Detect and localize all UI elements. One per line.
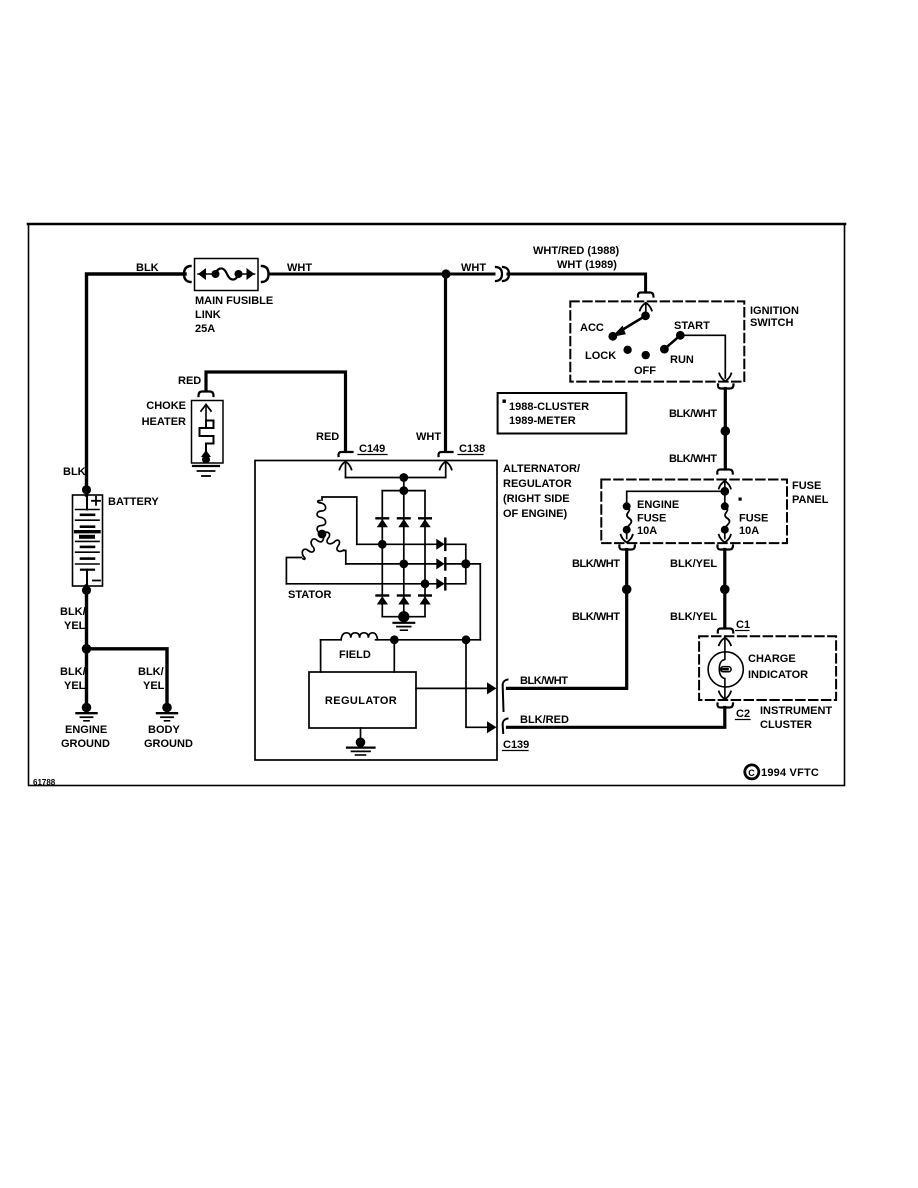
- wire engine fuse to regulator BLK/WHT: [508, 550, 627, 689]
- wire bridge left column: [381, 491, 383, 617]
- pin arrow cluster input: [719, 638, 731, 653]
- svg-text:(RIGHT SIDE: (RIGHT SIDE: [503, 493, 570, 505]
- wire ignition to fuse panel: [724, 389, 727, 469]
- svg-text:LOCK: LOCK: [585, 350, 616, 362]
- svg-text:ACC: ACC: [580, 322, 604, 334]
- svg-text:YEL: YEL: [64, 620, 86, 632]
- wire input bus: [346, 477, 446, 479]
- svg-text:OF ENGINE): OF ENGINE): [503, 508, 568, 520]
- label asterisk: [739, 498, 742, 501]
- svg-text:STATOR: STATOR: [288, 589, 331, 601]
- node bus junction: [399, 473, 408, 482]
- node ground branch: [82, 644, 92, 654]
- svg-text:HEATER: HEATER: [142, 416, 186, 428]
- svg-text:REGULATOR: REGULATOR: [325, 695, 397, 707]
- fuse panel box: [601, 480, 787, 544]
- pin arrow ignition input: [640, 303, 652, 316]
- wire RED choke heater to alternator C149: [206, 372, 346, 451]
- svg-text:BLK: BLK: [136, 262, 159, 274]
- inline connector double arc: [496, 267, 502, 281]
- node phase1 left column: [378, 540, 387, 549]
- diode D2: [398, 518, 410, 527]
- wire connector to ignition switch: [508, 274, 646, 290]
- pin arrow C149 input: [340, 462, 352, 478]
- arrow output BLK/WHT: [487, 682, 497, 694]
- note box 1988/1989: [498, 393, 627, 434]
- wire field right to regulator: [393, 640, 395, 672]
- wire field left to regulator: [320, 640, 322, 672]
- ignition switch box: [570, 301, 744, 381]
- svg-text:RED: RED: [316, 431, 339, 443]
- node fuse branch: [720, 487, 729, 496]
- svg-text:LINK: LINK: [195, 309, 221, 321]
- diode D6: [419, 596, 431, 605]
- svg-text:FUSE: FUSE: [792, 480, 821, 492]
- wire bus to bridge: [403, 478, 405, 491]
- wire trio output tie: [445, 544, 466, 584]
- svg-text:ENGINE: ENGINE: [637, 499, 679, 511]
- svg-text:1994 VFTC: 1994 VFTC: [761, 767, 819, 779]
- field coil: [321, 633, 481, 640]
- connector C138: [438, 452, 452, 456]
- svg-text:PANEL: PANEL: [792, 494, 829, 506]
- connector C139 pin1: [503, 680, 508, 712]
- wire stator phase1 lead: [322, 497, 357, 544]
- wire battery negative to ground junction: [85, 586, 88, 707]
- node field output: [462, 635, 471, 644]
- svg-text:START: START: [674, 320, 710, 332]
- svg-text:C: C: [748, 768, 755, 778]
- connector above choke heater: [199, 392, 214, 397]
- svg-text:CHARGE: CHARGE: [748, 653, 796, 665]
- node LOCK: [623, 346, 631, 354]
- node splice: [721, 426, 731, 436]
- arrow cluster output down: [719, 687, 731, 699]
- wire bridge bottom rail: [382, 616, 425, 618]
- svg-text:CHOKE: CHOKE: [146, 400, 186, 412]
- node phase2 middle column: [399, 560, 408, 569]
- diode D1: [377, 518, 389, 527]
- node splice BLK/YEL: [720, 585, 730, 595]
- diode trio 3: [436, 578, 445, 589]
- ground bridge: [394, 611, 415, 630]
- node bridge top: [399, 486, 408, 495]
- svg-text:MAIN FUSIBLE: MAIN FUSIBLE: [195, 295, 273, 307]
- svg-text:FUSE: FUSE: [739, 513, 768, 525]
- svg-text:WHT (1989): WHT (1989): [557, 259, 617, 271]
- svg-text:C1: C1: [736, 619, 750, 631]
- connector C1: [718, 629, 734, 633]
- node battery top: [82, 485, 91, 494]
- wire branch to engine fuse: [627, 491, 725, 506]
- connector left of fusible link: [184, 266, 191, 282]
- wire battery positive to fusible link: [87, 274, 186, 495]
- svg-text:YEL: YEL: [143, 680, 165, 692]
- regulator U1: [309, 672, 416, 728]
- svg-text:BLK/WHT: BLK/WHT: [572, 558, 620, 570]
- wire phase3: [286, 583, 436, 585]
- svg-text:RED: RED: [178, 375, 201, 387]
- diode D5: [398, 596, 410, 605]
- svg-text:BLK: BLK: [63, 466, 86, 478]
- svg-text:BLK/: BLK/: [138, 666, 164, 678]
- wire C2 to regulator BLK/RED: [508, 708, 725, 728]
- ground bars choke heater: [193, 466, 219, 476]
- connector right of fusible link: [262, 266, 269, 282]
- wire START to switch output: [680, 335, 725, 378]
- stator coil 1: [317, 501, 326, 535]
- arrow output BLK/RED: [487, 721, 497, 733]
- body ground: [157, 703, 177, 721]
- svg-text:BLK/YEL: BLK/YEL: [670, 558, 717, 570]
- wire field output BLK/RED: [466, 640, 489, 728]
- wire bridge top rail: [382, 490, 425, 492]
- wire WHT to alternator C138: [444, 274, 447, 451]
- svg-text:INSTRUMENT: INSTRUMENT: [760, 705, 832, 717]
- copyright 1994 VFTC: [745, 765, 819, 779]
- connector below engine fuse: [619, 546, 635, 550]
- switch arm to ACC: [622, 316, 646, 331]
- node stator center: [318, 530, 327, 539]
- wire branch to body ground: [87, 649, 168, 707]
- svg-text:BLK/YEL: BLK/YEL: [670, 611, 717, 623]
- svg-text:OFF: OFF: [634, 365, 656, 377]
- wire trio output to field line: [445, 564, 480, 640]
- svg-text:SWITCH: SWITCH: [750, 317, 793, 329]
- pin arrow fuse panel input: [719, 481, 731, 491]
- stator coil 3: [320, 530, 347, 553]
- engine fuse 10A: [621, 502, 633, 542]
- svg-text:ALTERNATOR/: ALTERNATOR/: [503, 463, 580, 475]
- wire bridge right column: [424, 491, 426, 617]
- svg-text:FIELD: FIELD: [339, 649, 371, 661]
- ground regulator: [347, 728, 375, 755]
- connector C2: [717, 704, 733, 708]
- node ACC: [608, 332, 617, 341]
- svg-text:1989-METER: 1989-METER: [509, 415, 576, 427]
- choke heater: [192, 401, 224, 464]
- svg-text:C138: C138: [459, 443, 485, 455]
- wire right fuse to C1 BLK/YEL: [723, 550, 726, 628]
- alternator/regulator box: [255, 461, 497, 761]
- svg-text:C2: C2: [736, 708, 750, 720]
- svg-text:GROUND: GROUND: [144, 738, 193, 750]
- svg-text:WHT/RED (1988): WHT/RED (1988): [533, 245, 620, 257]
- node START: [676, 331, 685, 340]
- connector C139 pin2: [503, 719, 508, 734]
- node splice BLK/WHT: [622, 585, 632, 595]
- node field right: [390, 635, 399, 644]
- svg-text:BLK/: BLK/: [60, 666, 86, 678]
- svg-text:10A: 10A: [739, 525, 759, 537]
- svg-text:BLK/WHT: BLK/WHT: [572, 611, 620, 623]
- svg-text:10A: 10A: [637, 525, 657, 537]
- svg-text:25A: 25A: [195, 323, 215, 335]
- svg-text:BLK/RED: BLK/RED: [520, 714, 569, 726]
- connector below ignition switch: [718, 385, 734, 389]
- connector C149: [338, 452, 352, 456]
- node switch common: [641, 311, 650, 320]
- svg-text:REGULATOR: REGULATOR: [503, 478, 572, 490]
- arrow switch output down: [719, 374, 731, 382]
- svg-text:BATTERY: BATTERY: [108, 496, 159, 508]
- connector above fuse panel: [717, 470, 733, 474]
- connector below right fuse: [717, 546, 733, 550]
- svg-text:BLK/WHT: BLK/WHT: [520, 675, 568, 687]
- node OFF: [642, 351, 650, 359]
- svg-text:RUN: RUN: [670, 354, 694, 366]
- diode trio 1: [436, 539, 445, 550]
- stator coil 2: [299, 532, 326, 561]
- wire phase2: [346, 563, 437, 565]
- connector above ignition switch: [638, 293, 654, 297]
- wire bridge middle column: [403, 491, 405, 617]
- svg-text:WHT: WHT: [416, 431, 441, 443]
- diode D3: [419, 518, 431, 527]
- node RUN: [660, 345, 669, 354]
- svg-text:FUSE: FUSE: [637, 513, 666, 525]
- svg-text:IGNITION: IGNITION: [750, 305, 799, 317]
- label 1988-CLUSTER: [503, 400, 506, 403]
- svg-text:GROUND: GROUND: [61, 738, 110, 750]
- svg-text:61788: 61788: [33, 778, 56, 787]
- svg-text:YEL: YEL: [64, 680, 86, 692]
- wire stator phase3 lead: [286, 558, 301, 584]
- charge indicator lamp: [708, 652, 743, 687]
- wire fusible link to junction: [269, 273, 494, 276]
- diode D4: [377, 596, 389, 605]
- node trio output: [461, 559, 470, 568]
- diode trio 2: [436, 558, 445, 569]
- node battery bottom: [82, 586, 91, 595]
- battery: [73, 495, 103, 586]
- svg-text:CLUSTER: CLUSTER: [760, 719, 812, 731]
- node junction WHT: [441, 269, 450, 278]
- svg-text:ENGINE: ENGINE: [65, 724, 107, 736]
- svg-text:BLK/: BLK/: [60, 606, 86, 618]
- node phase3 right column: [421, 579, 430, 588]
- pin arrow C138 input: [440, 462, 452, 478]
- svg-text:C139: C139: [503, 739, 529, 751]
- wire phase1: [357, 543, 437, 545]
- svg-text:WHT: WHT: [287, 262, 312, 274]
- wire regulator output BLK/WHT: [416, 687, 489, 689]
- wire RUN to START: [664, 335, 680, 349]
- wire stator phase2 lead: [344, 551, 346, 564]
- engine ground: [77, 703, 97, 721]
- svg-text:C149: C149: [359, 443, 385, 455]
- right fuse 10A: [719, 491, 731, 542]
- svg-text:BLK/WHT: BLK/WHT: [669, 453, 717, 465]
- main fusible link 25A: [195, 259, 259, 291]
- svg-text:1988-CLUSTER: 1988-CLUSTER: [509, 401, 589, 413]
- svg-text:BLK/WHT: BLK/WHT: [669, 408, 717, 420]
- instrument cluster box: [699, 636, 836, 700]
- svg-text:BODY: BODY: [148, 724, 180, 736]
- svg-text:WHT: WHT: [461, 262, 486, 274]
- svg-text:INDICATOR: INDICATOR: [748, 669, 808, 681]
